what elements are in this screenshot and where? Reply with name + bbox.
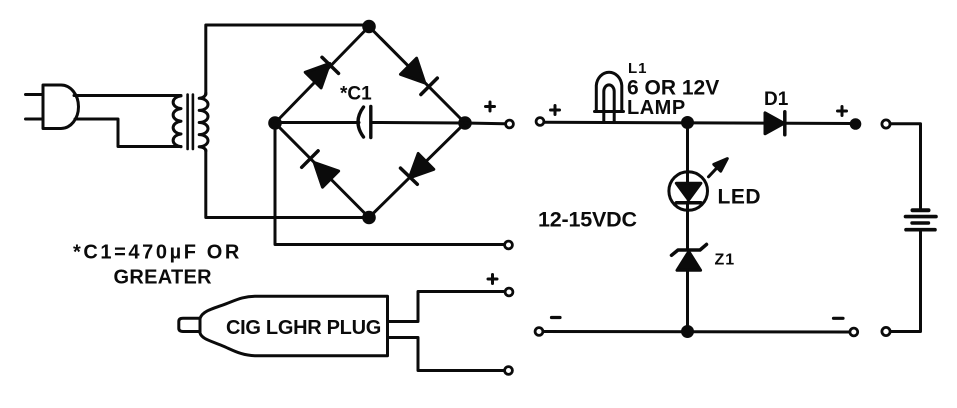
svg-text:Z1: Z1 bbox=[715, 252, 736, 269]
wire plug to transformer primary bottom bbox=[75, 119, 181, 147]
lamp L1 filament bbox=[604, 85, 614, 122]
terminal load plus input bbox=[536, 118, 544, 126]
cigarette lighter plug tip bbox=[179, 318, 200, 331]
terminal load minus to battery bbox=[850, 328, 858, 336]
wire right node to plus output terminal bbox=[465, 122, 505, 126]
svg-text:GREATER: GREATER bbox=[114, 267, 213, 289]
wire load top rail bbox=[544, 122, 852, 123]
minus sign battery bbox=[834, 317, 844, 320]
wire left node to capacitor bbox=[275, 121, 359, 124]
zener diode Z1 bbox=[672, 244, 707, 270]
plus sign bridge output bbox=[486, 102, 495, 111]
lamp L1 envelope bbox=[595, 72, 624, 111]
wire capacitor to right node bbox=[373, 121, 466, 125]
terminal battery plus bbox=[882, 120, 890, 128]
svg-text:LED: LED bbox=[718, 186, 762, 209]
wire secondary top to bridge top rail bbox=[206, 25, 369, 95]
wire LED branch upper bbox=[686, 123, 689, 184]
terminal load minus input bbox=[535, 328, 543, 336]
bridge edge wire top-left bbox=[275, 27, 369, 124]
terminal load plus to battery (filled) bbox=[851, 120, 860, 129]
plus sign load input bbox=[551, 106, 560, 115]
cigarette lighter plug body bbox=[200, 296, 388, 356]
capacitor C1 bbox=[358, 107, 371, 138]
plus sign plug output bbox=[488, 275, 497, 284]
wire plug output bottom bbox=[388, 338, 504, 371]
terminal plug minus output bbox=[505, 367, 513, 375]
wire load bottom rail bbox=[543, 330, 850, 334]
battery B1 bbox=[906, 210, 937, 229]
diode D1 bbox=[765, 112, 785, 135]
bridge diode D-BL (bottom node to left node) bbox=[302, 151, 339, 187]
svg-text:L1: L1 bbox=[628, 60, 648, 77]
bridge edge wire top-right bbox=[369, 27, 465, 124]
bridge edge wire bottom-left bbox=[275, 123, 369, 218]
transformer T1 secondary winding bbox=[199, 93, 208, 151]
bridge diode D-TR (top node to right node) bbox=[401, 58, 438, 94]
bridge diode D-BR (right node to bottom node) bbox=[401, 154, 434, 185]
node bottom rail junction bbox=[683, 327, 693, 337]
terminal plug plus output bbox=[505, 288, 513, 296]
transformer T1 core bbox=[188, 95, 193, 150]
bridge edge wire bottom-right bbox=[369, 123, 465, 218]
svg-text:12-15VDC: 12-15VDC bbox=[538, 208, 637, 232]
transformer T1 primary winding bbox=[173, 96, 181, 147]
svg-text:LAMP: LAMP bbox=[627, 97, 686, 119]
svg-text:*C1=470µF OR: *C1=470µF OR bbox=[73, 242, 242, 264]
bridge node top bbox=[364, 21, 375, 32]
plus sign battery bbox=[838, 107, 847, 116]
terminal bridge minus output bbox=[505, 241, 513, 249]
node lamp-LED junction bbox=[683, 118, 693, 128]
svg-text:*C1: *C1 bbox=[340, 84, 372, 105]
LED LED1 bbox=[669, 159, 727, 211]
wire secondary bottom to bridge bottom node bbox=[206, 150, 369, 218]
svg-text:CIG LGHR PLUG: CIG LGHR PLUG bbox=[226, 317, 381, 339]
wire battery bottom lead bbox=[890, 232, 921, 332]
wire left node down and right to minus output terminal bbox=[275, 123, 504, 245]
bridge node left bbox=[270, 118, 281, 129]
wire zener to bottom rail bbox=[686, 270, 689, 332]
bridge diode D-TL (left node to top node) bbox=[305, 57, 338, 88]
bridge node bottom bbox=[364, 212, 375, 223]
wire plug output top bbox=[388, 292, 504, 322]
wire plug to transformer primary top bbox=[74, 94, 181, 97]
wire battery top lead bbox=[890, 124, 921, 208]
terminal bridge plus output bbox=[506, 120, 514, 128]
AC plug P1 bbox=[26, 85, 79, 129]
terminal battery minus bbox=[882, 327, 890, 335]
minus sign load input bbox=[552, 316, 561, 319]
bridge node right bbox=[460, 118, 471, 129]
wire LED to zener bbox=[686, 202, 689, 248]
svg-text:D1: D1 bbox=[764, 89, 789, 110]
